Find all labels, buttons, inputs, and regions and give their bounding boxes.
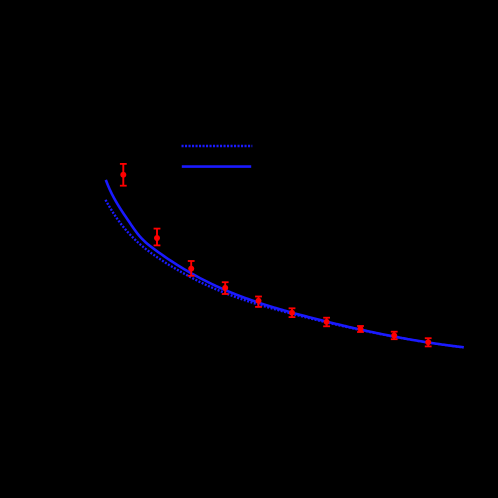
data point P1 marker (120, 172, 126, 178)
data point P6 error bar (291, 308, 293, 317)
data point P8 error bar (360, 326, 362, 332)
data point P10 error bar (427, 338, 429, 346)
data point P6 marker (289, 310, 295, 316)
data point P9 error bar (393, 332, 395, 340)
data point P4 error bar (224, 282, 226, 294)
legend solid-line sample (182, 165, 251, 168)
data point P2 marker (154, 235, 160, 241)
data point P3 error bar (190, 261, 192, 276)
data point P4 marker (222, 285, 228, 291)
data point P2 error bar (156, 229, 158, 246)
data point P7 error bar (326, 318, 328, 325)
solid theory curve (106, 180, 464, 347)
data point P1 error bar (122, 164, 124, 186)
data point P10 marker (425, 339, 431, 345)
legend dotted-line sample (182, 145, 253, 148)
data point P7 marker (324, 319, 330, 325)
data point P9 marker (391, 333, 397, 339)
data point P8 marker (358, 326, 364, 332)
data point P5 marker (256, 298, 262, 304)
dotted theory curve (106, 200, 464, 348)
data point P5 error bar (258, 297, 260, 307)
data point P3 marker (188, 266, 194, 272)
